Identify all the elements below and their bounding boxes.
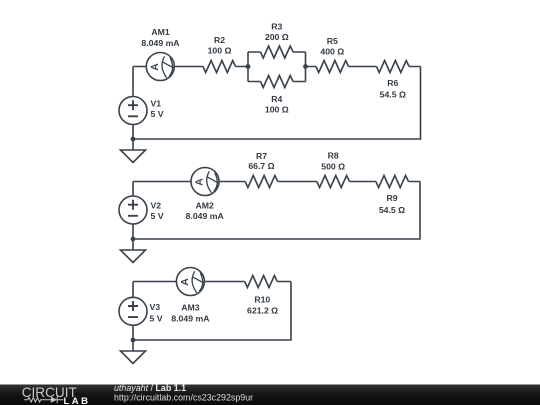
wire parallel-right vertical: [305, 52, 307, 82]
svg-text:AM1: AM1: [151, 27, 170, 37]
wire circuit3 left vertical through V3: [132, 282, 134, 341]
wire R4 leads: [248, 81, 306, 83]
svg-text:R3: R3: [271, 21, 282, 31]
svg-text:5 V: 5 V: [150, 313, 163, 323]
svg-text:V2: V2: [151, 201, 162, 211]
svg-text:8.049 mA: 8.049 mA: [186, 211, 225, 221]
wire main circuit2: [133, 181, 420, 183]
svg-text:R4: R4: [271, 94, 282, 104]
svg-text:400 Ω: 400 Ω: [320, 46, 344, 56]
node junction parallel-right: [303, 64, 308, 69]
svg-text:200 Ω: 200 Ω: [265, 32, 289, 42]
wire circuit1 right side and bottom: [133, 67, 421, 140]
wire parallel-left vertical: [247, 52, 249, 82]
svg-text:R9: R9: [386, 193, 397, 203]
wire R3 leads: [248, 51, 306, 53]
ground circuit3: [121, 340, 146, 364]
svg-text:AM2: AM2: [196, 201, 215, 211]
wire main circuit3: [133, 281, 291, 283]
svg-text:AM3: AM3: [181, 303, 200, 313]
resistor R9: [376, 176, 409, 188]
node junction parallel-left: [246, 64, 251, 69]
svg-text:R10: R10: [254, 295, 270, 305]
node junction circuit3: [131, 338, 136, 343]
svg-text:100 Ω: 100 Ω: [265, 104, 289, 114]
resistor R2: [203, 61, 236, 73]
svg-text:R8: R8: [328, 150, 339, 160]
svg-text:R5: R5: [327, 36, 338, 46]
footer bar: [0, 385, 540, 405]
ammeter AM2: [191, 168, 219, 196]
node junction circuit1: [131, 137, 136, 142]
svg-text:R7: R7: [256, 151, 267, 161]
resistor R3: [261, 46, 294, 58]
resistor R6: [377, 61, 410, 73]
svg-text:621.2 Ω: 621.2 Ω: [247, 306, 278, 316]
svg-text:8.049 mA: 8.049 mA: [141, 38, 180, 48]
svg-text:uthayaht / Lab 1.1: uthayaht / Lab 1.1: [114, 383, 186, 393]
svg-text:V3: V3: [150, 302, 161, 312]
svg-text:R6: R6: [387, 78, 398, 88]
voltage source V2: [119, 196, 147, 224]
wire circuit1 left vertical through V1: [132, 67, 134, 140]
svg-text:54.5 Ω: 54.5 Ω: [380, 89, 406, 99]
voltage source V3: [119, 297, 147, 325]
svg-text:8.049 mA: 8.049 mA: [171, 313, 210, 323]
wire circuit2 left vertical through V2: [132, 182, 134, 240]
node junction circuit2: [131, 237, 136, 242]
ammeter AM1: [146, 53, 174, 81]
resistor R5: [316, 61, 349, 73]
svg-text:100 Ω: 100 Ω: [208, 46, 232, 56]
resistor R7: [245, 176, 278, 188]
svg-text:LAB: LAB: [64, 396, 91, 405]
svg-text:500 Ω: 500 Ω: [321, 162, 345, 172]
resistor R4: [261, 76, 294, 88]
svg-text:66.7 Ω: 66.7 Ω: [248, 161, 274, 171]
svg-text:5 V: 5 V: [151, 109, 164, 119]
voltage source V1: [119, 97, 147, 125]
resistor R8: [317, 176, 350, 188]
ammeter AM3: [176, 268, 204, 296]
svg-text:R2: R2: [214, 35, 225, 45]
svg-text:http://circuitlab.com/cs23c292: http://circuitlab.com/cs23c292sp9ur: [114, 392, 253, 402]
ground circuit2: [121, 239, 146, 263]
wire circuit3 right side and bottom: [133, 282, 291, 341]
wire main top circuit1: [133, 66, 421, 68]
wire circuit2 right side and bottom: [133, 182, 420, 240]
resistor R10: [245, 276, 278, 288]
svg-text:5 V: 5 V: [151, 211, 164, 221]
svg-text:V1: V1: [151, 99, 162, 109]
ground circuit1: [121, 139, 146, 163]
logo squiggle wire with resistor and diode: [24, 397, 63, 404]
svg-text:54.5 Ω: 54.5 Ω: [379, 205, 405, 215]
